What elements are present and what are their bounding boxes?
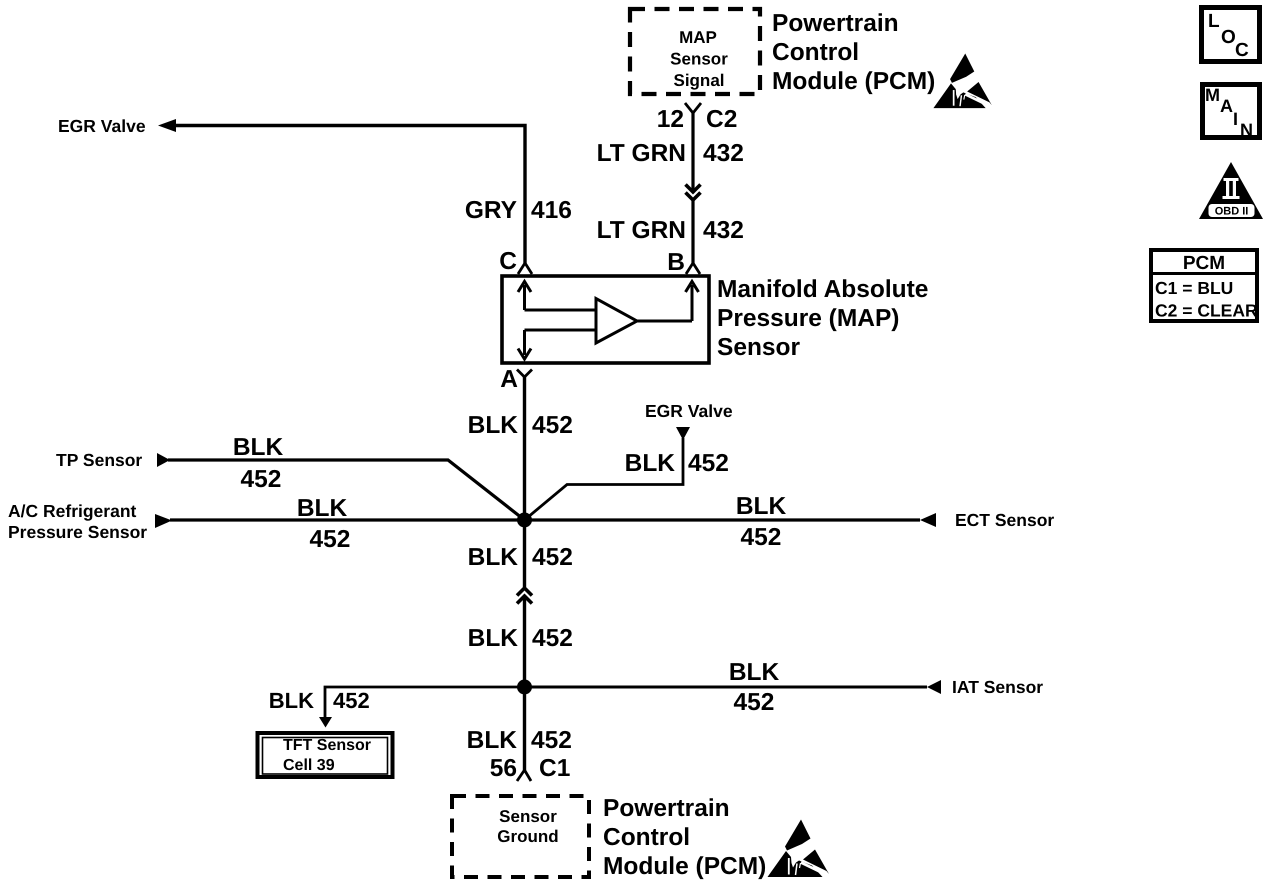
junction node (lower splice) xyxy=(517,680,532,695)
ESD warning symbol bottom xyxy=(768,820,831,878)
svg-text:452: 452 xyxy=(532,544,573,571)
svg-text:A: A xyxy=(1220,96,1233,116)
svg-text:432: 432 xyxy=(703,140,744,167)
ESD warning symbol top xyxy=(933,53,992,108)
svg-text:BLK: BLK xyxy=(467,727,518,754)
connector pin B symbol xyxy=(686,263,700,274)
svg-text:LT GRN: LT GRN xyxy=(597,140,686,167)
arrow at IAT Sensor xyxy=(927,680,941,694)
wire BLK 452 from pin A xyxy=(523,377,526,520)
svg-text:Ground: Ground xyxy=(497,827,558,846)
wire BLK 452 to IAT Sensor xyxy=(525,686,928,689)
arrow at A/C Refrigerant Pressure Sensor xyxy=(155,514,172,528)
label BLK 452 (between junctions upper) xyxy=(468,544,573,571)
svg-text:O: O xyxy=(1221,27,1236,48)
label BLK 452 (between junctions lower) xyxy=(468,625,573,652)
svg-text:Signal: Signal xyxy=(673,71,724,90)
svg-text:BLK: BLK xyxy=(468,412,519,439)
svg-text:Control: Control xyxy=(603,824,690,851)
svg-text:I: I xyxy=(1233,109,1238,129)
svg-text:Sensor: Sensor xyxy=(499,807,557,826)
PCM Sensor Ground box (dashed) xyxy=(452,796,589,877)
wire BLK 452 to TP Sensor xyxy=(168,460,525,520)
label BLK 452 (TP branch) xyxy=(233,434,284,493)
connector C2 pin 12 symbol xyxy=(685,103,701,113)
svg-text:Cell 39: Cell 39 xyxy=(283,757,335,774)
connector pin A symbol xyxy=(517,370,532,378)
svg-text:56: 56 xyxy=(490,755,517,782)
svg-text:452: 452 xyxy=(310,526,351,553)
svg-text:452: 452 xyxy=(532,412,573,439)
svg-text:BLK: BLK xyxy=(729,659,780,686)
svg-text:L: L xyxy=(1208,11,1220,32)
svg-text:OBD II: OBD II xyxy=(1215,206,1249,218)
arrow at EGR Valve branch xyxy=(676,427,690,440)
svg-text:TP Sensor: TP Sensor xyxy=(56,450,142,470)
wire BLK 452 to TFT Sensor xyxy=(325,687,525,718)
svg-text:ECT Sensor: ECT Sensor xyxy=(955,510,1054,530)
connector pin C symbol xyxy=(518,263,532,274)
svg-text:452: 452 xyxy=(688,450,729,477)
svg-text:C: C xyxy=(1235,40,1249,61)
svg-text:Powertrain: Powertrain xyxy=(603,795,730,822)
svg-text:PCM: PCM xyxy=(1183,253,1225,274)
label TFT Sensor Cell 39 xyxy=(283,737,371,774)
label GRY 416 xyxy=(465,197,572,224)
svg-text:B: B xyxy=(667,249,685,276)
label LT GRN 432 upper xyxy=(597,140,744,167)
svg-text:LT GRN: LT GRN xyxy=(597,217,686,244)
label BLK 452 (TFT branch) xyxy=(269,688,370,713)
label LT GRN 432 lower xyxy=(597,217,744,244)
svg-text:C1 = BLU: C1 = BLU xyxy=(1155,278,1233,298)
svg-text:452: 452 xyxy=(241,466,282,493)
label BLK 452 (ground segment) xyxy=(467,727,572,754)
svg-text:12: 12 xyxy=(657,106,684,133)
wire BLK 452 to A/C Refrigerant Pressure Sensor xyxy=(170,518,525,521)
PCM MAP Sensor Signal box (dashed) xyxy=(630,9,760,94)
svg-text:452: 452 xyxy=(531,727,572,754)
svg-text:Pressure Sensor: Pressure Sensor xyxy=(8,522,147,542)
label BLK 452 (EGR branch) xyxy=(625,450,729,477)
wire GRY 416 to EGR Valve xyxy=(170,126,525,264)
svg-text:452: 452 xyxy=(333,688,370,713)
wire BLK 452 between junctions (lower) xyxy=(523,596,526,687)
wire BLK 452 to ECT Sensor xyxy=(525,518,921,521)
svg-text:C1: C1 xyxy=(539,755,570,782)
wire BLK 452 between junctions (upper) xyxy=(523,520,526,587)
label Powertrain Control Module (PCM) bottom xyxy=(603,795,766,880)
svg-text:BLK: BLK xyxy=(269,688,314,713)
MAIN legend box xyxy=(1203,85,1260,141)
junction node (upper splice) xyxy=(517,513,532,528)
arrow at TP Sensor xyxy=(157,453,170,467)
svg-text:Manifold Absolute: Manifold Absolute xyxy=(717,276,928,303)
wire BLK 452 to EGR Valve xyxy=(525,438,684,520)
svg-text:C2: C2 xyxy=(706,106,737,133)
wire BLK 452 to PCM C1 xyxy=(523,687,526,770)
TFT Sensor Cell 39 reference box xyxy=(258,733,393,777)
label MAP Sensor Signal xyxy=(670,28,728,90)
svg-text:TFT Sensor: TFT Sensor xyxy=(283,737,371,754)
svg-text:EGR Valve: EGR Valve xyxy=(645,401,733,421)
svg-text:432: 432 xyxy=(703,217,744,244)
wire LT GRN 432 lower xyxy=(691,200,694,263)
svg-text:Powertrain: Powertrain xyxy=(772,10,899,37)
svg-text:A/C Refrigerant: A/C Refrigerant xyxy=(8,501,137,521)
svg-text:IAT Sensor: IAT Sensor xyxy=(952,677,1043,697)
svg-text:452: 452 xyxy=(532,625,573,652)
svg-text:452: 452 xyxy=(734,689,775,716)
label A/C Refrigerant Pressure Sensor xyxy=(8,501,147,542)
connector C1 pin 56 symbol xyxy=(517,770,531,781)
svg-text:Sensor: Sensor xyxy=(717,334,801,361)
svg-text:N: N xyxy=(1240,120,1253,140)
wire LT GRN 432 upper xyxy=(691,113,694,190)
svg-text:EGR Valve: EGR Valve xyxy=(58,116,146,136)
svg-text:416: 416 xyxy=(531,197,572,224)
label BLK 452 (IAT branch) xyxy=(729,659,780,716)
svg-text:BLK: BLK xyxy=(233,434,284,461)
svg-text:Sensor: Sensor xyxy=(670,50,728,69)
label Powertrain Control Module (PCM) top xyxy=(772,10,935,95)
label BLK 452 (ECT branch) xyxy=(736,493,787,551)
svg-text:MAP: MAP xyxy=(679,28,717,47)
svg-text:452: 452 xyxy=(741,524,782,551)
svg-text:Pressure (MAP): Pressure (MAP) xyxy=(717,305,899,332)
svg-text:C: C xyxy=(499,248,517,275)
svg-text:M: M xyxy=(1205,85,1220,105)
in-line splice connector on LT GRN 432 xyxy=(686,185,701,201)
label BLK 452 (pin A segment) xyxy=(468,412,573,439)
label Manifold Absolute Pressure (MAP) Sensor xyxy=(717,276,928,361)
label Sensor Ground xyxy=(497,807,558,846)
svg-text:A: A xyxy=(500,366,518,393)
PCM connector legend box xyxy=(1151,250,1258,321)
arrow at TFT Sensor branch xyxy=(319,717,332,728)
OBD II symbol xyxy=(1199,162,1263,219)
svg-text:GRY: GRY xyxy=(465,197,517,224)
LOC legend box xyxy=(1202,8,1260,62)
label BLK 452 (A/C branch) xyxy=(297,495,351,553)
arrow to EGR Valve xyxy=(158,119,176,132)
svg-text:Module (PCM): Module (PCM) xyxy=(772,68,935,95)
MAP sensor box xyxy=(502,276,709,363)
in-line splice connector on BLK 452 xyxy=(517,588,532,604)
svg-text:BLK: BLK xyxy=(736,493,787,520)
svg-text:BLK: BLK xyxy=(297,495,348,522)
svg-text:BLK: BLK xyxy=(468,625,519,652)
arrow at ECT Sensor xyxy=(920,513,936,527)
MAP sensor internal symbol xyxy=(518,282,699,360)
svg-text:Module (PCM): Module (PCM) xyxy=(603,853,766,880)
svg-text:BLK: BLK xyxy=(468,544,519,571)
svg-text:C2 = CLEAR: C2 = CLEAR xyxy=(1155,301,1258,321)
svg-text:BLK: BLK xyxy=(625,450,676,477)
svg-text:Control: Control xyxy=(772,39,859,66)
